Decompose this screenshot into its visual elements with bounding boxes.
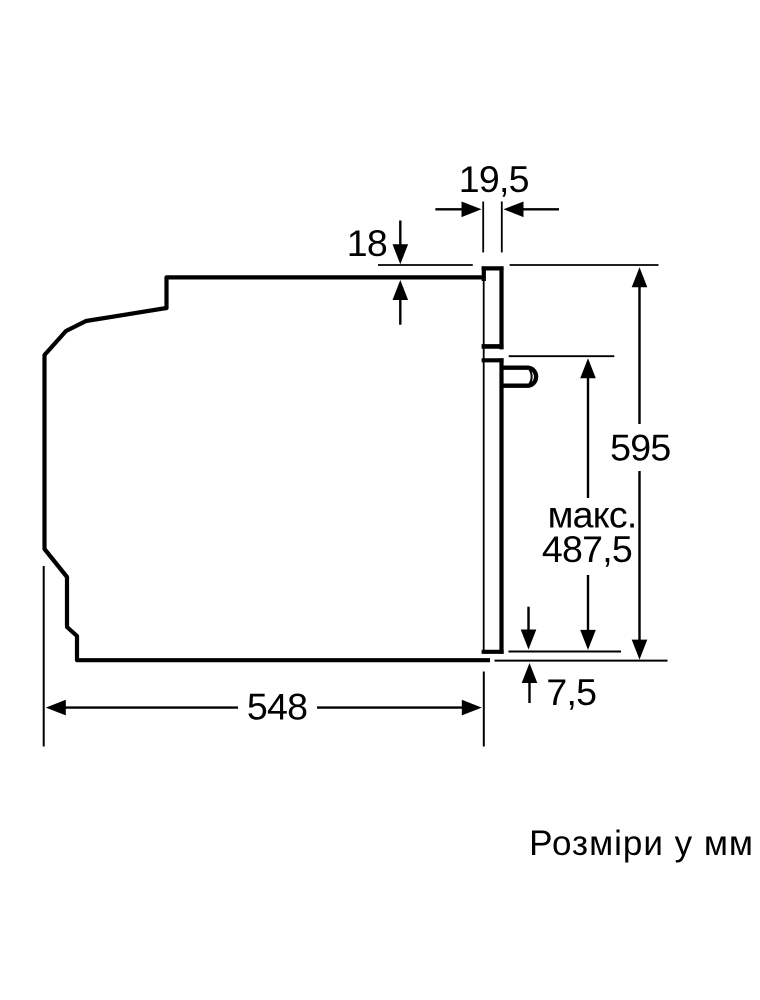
door lower section top edge <box>482 358 504 362</box>
svg-text:487,5: 487,5 <box>542 528 632 570</box>
595 dimension line lower segment <box>638 471 640 641</box>
top extension line right segment (door-top level) <box>510 264 659 266</box>
svg-text:19,5: 19,5 <box>459 158 529 200</box>
oven-bottom reference line <box>495 660 668 662</box>
18 dimension upper arrow tail <box>399 221 401 246</box>
19,5 right extension line <box>501 202 503 253</box>
svg-text:595: 595 <box>610 427 670 469</box>
18 dimension upper arrowhead (down) <box>393 244 409 264</box>
door lower section bottom edge <box>482 650 504 654</box>
595 dimension line upper segment <box>638 286 640 424</box>
548 dimension left line <box>65 706 238 708</box>
7,5 dimension upper arrowhead (down) <box>521 630 537 650</box>
18 dimension lower arrow tail <box>399 299 401 325</box>
19,5 left extension line <box>482 202 484 253</box>
548 dimension left arrowhead (left) <box>46 700 66 716</box>
595 dimension top arrowhead (up) <box>632 267 648 287</box>
svg-text:18: 18 <box>347 222 387 264</box>
door lower section right edge <box>499 358 503 654</box>
7,5 dimension lower arrow tail <box>528 682 530 703</box>
door-bottom reference line <box>509 651 622 653</box>
oven body outline <box>45 277 491 660</box>
max 487,5 bottom arrowhead (down) <box>580 630 596 650</box>
18 dimension lower arrowhead (up) <box>393 280 409 300</box>
max 487,5 top extension line <box>509 355 615 357</box>
548 dimension right line <box>317 706 463 708</box>
19,5 dimension left arrowhead <box>462 202 482 218</box>
548 right extension line <box>483 672 485 747</box>
548 left extension line <box>43 566 45 747</box>
handle outline <box>502 368 537 386</box>
19,5 dimension left line <box>435 208 463 210</box>
door upper section right edge <box>499 266 503 349</box>
max 487,5 line lower segment <box>587 575 589 631</box>
548 dimension right arrowhead (right) <box>462 700 482 716</box>
svg-text:548: 548 <box>247 686 307 728</box>
7,5 dimension lower arrowhead (up) <box>522 663 538 683</box>
door upper section bottom edge <box>482 344 504 349</box>
svg-text:Розміри у мм: Розміри у мм <box>529 824 754 863</box>
handle inner arc <box>530 370 532 385</box>
svg-text:7,5: 7,5 <box>546 671 596 713</box>
7,5 dimension upper arrow tail <box>527 607 529 631</box>
top extension line left segment (door-top level) <box>378 264 473 266</box>
max 487,5 top arrowhead (up) <box>580 358 596 378</box>
door upper section top edge <box>482 266 504 270</box>
19,5 dimension right arrowhead <box>504 202 524 218</box>
max 487,5 line upper segment <box>587 377 589 498</box>
door left edge thin part (continuous to bottom) <box>483 281 485 650</box>
door upper section left edge thick part <box>482 266 486 281</box>
595 dimension bottom arrowhead (down) <box>632 640 648 660</box>
19,5 dimension right line <box>522 208 559 210</box>
